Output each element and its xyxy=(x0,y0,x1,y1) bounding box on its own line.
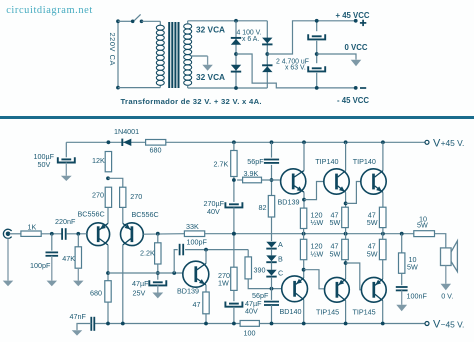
svg-text:47: 47 xyxy=(193,300,201,309)
svg-text:2.7K: 2.7K xyxy=(214,160,229,169)
svg-text:½W: ½W xyxy=(311,218,324,227)
svg-text:TIP145: TIP145 xyxy=(316,307,339,316)
svg-text:680: 680 xyxy=(90,288,102,297)
svg-text:32 VCA: 32 VCA xyxy=(196,72,225,82)
svg-text:1W: 1W xyxy=(218,278,229,287)
svg-text:circuitdiagram.net: circuitdiagram.net xyxy=(6,5,93,16)
svg-text:0 VCC: 0 VCC xyxy=(345,43,368,52)
svg-text:x 63 V.: x 63 V. xyxy=(285,65,306,72)
svg-text:100pF: 100pF xyxy=(187,238,208,247)
svg-text:270: 270 xyxy=(92,190,104,199)
svg-text:TIP140: TIP140 xyxy=(315,157,338,166)
svg-text:BC556C: BC556C xyxy=(78,209,105,218)
svg-text:5W: 5W xyxy=(367,218,378,227)
svg-text:5W: 5W xyxy=(367,249,378,258)
svg-text:TIP145: TIP145 xyxy=(353,307,376,316)
svg-text:25V: 25V xyxy=(133,288,146,297)
svg-text:0 V.: 0 V. xyxy=(441,292,453,301)
svg-text:x 6 A.: x 6 A. xyxy=(242,36,259,43)
svg-text:BD139: BD139 xyxy=(278,197,300,206)
svg-text:C: C xyxy=(278,268,283,277)
svg-text:100pF: 100pF xyxy=(30,261,51,270)
svg-text:5W: 5W xyxy=(330,218,341,227)
svg-text:33K: 33K xyxy=(186,222,199,231)
svg-text:47nF: 47nF xyxy=(70,312,87,321)
svg-text:B: B xyxy=(278,255,283,264)
svg-text:1K: 1K xyxy=(28,222,37,231)
svg-text:5W: 5W xyxy=(330,249,341,258)
svg-text:A: A xyxy=(278,240,283,249)
svg-text:2.2K: 2.2K xyxy=(140,248,155,257)
svg-text:12K: 12K xyxy=(92,156,105,165)
svg-text:50V: 50V xyxy=(38,160,51,169)
svg-text:5W: 5W xyxy=(407,262,418,271)
svg-text:32 VCA: 32 VCA xyxy=(196,24,225,34)
svg-text:−45 V.: −45 V. xyxy=(441,319,465,329)
svg-text:40V: 40V xyxy=(207,207,220,216)
svg-text:56pF: 56pF xyxy=(247,157,264,166)
svg-text:3.9K: 3.9K xyxy=(244,169,259,178)
svg-text:1N4001: 1N4001 xyxy=(114,127,139,136)
svg-text:270: 270 xyxy=(130,192,142,201)
svg-text:BD140: BD140 xyxy=(280,307,302,316)
svg-text:100nF: 100nF xyxy=(407,291,428,300)
svg-text:220nF: 220nF xyxy=(55,217,76,226)
svg-text:- 45 VCC: - 45 VCC xyxy=(337,96,369,105)
svg-text:BC556C: BC556C xyxy=(132,210,159,219)
svg-text:TIP140: TIP140 xyxy=(353,157,376,166)
svg-text:47K: 47K xyxy=(62,254,75,263)
svg-text:BD139: BD139 xyxy=(177,287,199,296)
svg-text:½W: ½W xyxy=(311,249,324,258)
svg-text:+45 V.: +45 V. xyxy=(441,138,465,148)
svg-text:+ 45 VCC: + 45 VCC xyxy=(336,11,370,20)
svg-text:680: 680 xyxy=(150,145,162,154)
svg-text:100: 100 xyxy=(244,329,256,338)
svg-text:40V: 40V xyxy=(245,306,258,315)
svg-text:390: 390 xyxy=(254,266,266,275)
svg-text:47µF: 47µF xyxy=(132,279,149,288)
svg-text:220V CA: 220V CA xyxy=(108,33,117,66)
svg-text:82: 82 xyxy=(259,203,267,212)
svg-text:5W: 5W xyxy=(417,221,428,230)
svg-text:Transformador de 32 V. + 32 V.: Transformador de 32 V. + 32 V. x 4A. xyxy=(121,97,262,106)
